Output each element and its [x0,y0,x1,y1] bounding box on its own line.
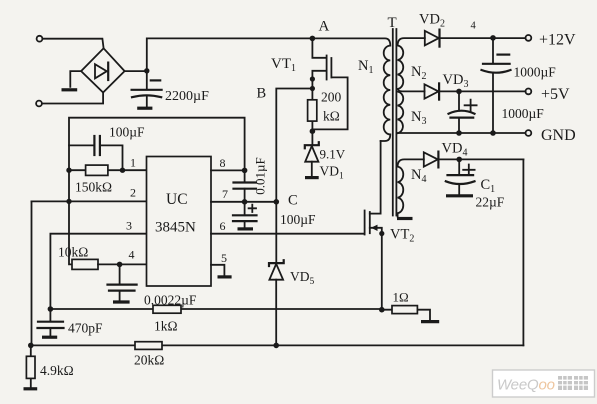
node C [274,199,280,205]
junction GND caps [456,130,462,136]
wire VD3 to +5V [439,90,525,92]
transformer T core [393,29,397,216]
junction 150k left [66,168,71,173]
svg-text:VD4: VD4 [442,141,468,159]
junction pin4 [117,262,123,268]
svg-text:N3: N3 [411,109,426,127]
winding N3 tap wire [398,89,425,91]
op-amp U1 UC3845N box [147,157,212,287]
wire current-sense row [50,308,381,310]
bridge rectifier [81,48,125,92]
terminal +5V [526,89,532,95]
wire feedback top (pin8 to left rail) [69,118,245,202]
svg-text:1000µF: 1000µF [514,65,557,80]
input terminal top [37,36,43,42]
winding N3 [398,92,404,134]
diode VD4 [424,152,438,166]
ground (VD1) [305,176,319,179]
wire AC bottom [42,93,103,104]
zener diode VD1 [311,131,313,145]
junction 5V cap [456,89,462,95]
svg-text:7: 7 [222,187,228,201]
junction pin7/cap [242,199,248,205]
resistor 20k [135,342,162,350]
junction VT2 source [379,307,385,313]
svg-text:4: 4 [471,21,477,32]
wire pin3 [50,234,146,309]
svg-text:0.01µF: 0.01µF [253,157,268,194]
svg-text:GND: GND [541,127,576,144]
capacitor 0.0022uF [119,264,121,283]
junction pin3/470pF [48,306,54,312]
ground (1 ohm) [421,320,439,323]
svg-text:2: 2 [130,186,136,200]
wire left rail down to 10k [69,201,72,264]
svg-text:WeeQoo: WeeQoo [497,377,555,394]
diode VD2 [425,31,439,46]
resistor 4.9k [30,345,32,387]
svg-text:VT1: VT1 [271,56,296,74]
junction node B [310,86,315,91]
wire GND rail [398,132,526,134]
svg-text:22µF: 22µF [476,195,505,210]
svg-text:4: 4 [129,248,135,262]
wire bottom rail [31,344,524,346]
svg-text:100µF: 100µF [109,125,145,140]
junction 200k/VD1 [310,128,316,134]
svg-text:1Ω: 1Ω [393,290,409,305]
svg-text:C1: C1 [481,177,496,195]
wire pin2 [32,200,147,202]
svg-text:VD2: VD2 [419,12,445,30]
transistor VT2 [364,211,366,235]
svg-text:N4: N4 [411,167,426,185]
winding N4 [398,159,424,216]
terminal +12V [526,35,532,41]
resistor 1k [153,305,181,313]
svg-text:5: 5 [221,251,227,265]
wire pin8 [211,169,245,171]
capacitor 0.01uF [244,170,246,181]
capacitor 2200uF [146,71,148,89]
terminal bar (N4 bottom) [397,217,413,220]
capacitor 1000uF (12V) [498,53,510,55]
bridge diode symbol [95,64,107,78]
wire AC top [43,39,104,49]
wire VT2 drain to N1 [380,141,382,214]
junction 150k right [120,168,125,173]
ground (2200uF) [137,107,152,110]
wire pin7 to node C [211,201,276,203]
input terminal bottom [36,101,42,107]
ground (100uF) [238,227,254,230]
svg-text:9.1V: 9.1V [320,147,346,162]
wire pin5 [211,265,224,275]
svg-text:3: 3 [126,219,132,233]
winding N2 [398,38,425,89]
ground (0.0022uF) [113,300,130,303]
svg-text:470pF: 470pF [68,321,103,336]
svg-text:200: 200 [321,90,342,105]
ground (4.9k) [24,387,38,390]
svg-text:VD1: VD1 [320,164,345,182]
svg-text:3845N: 3845N [155,220,196,236]
node A [310,36,316,42]
svg-text:4.9kΩ: 4.9kΩ [40,363,74,378]
svg-text:20kΩ: 20kΩ [134,353,164,368]
resistor 10k [72,259,98,269]
junction 12V cap [490,35,496,41]
wire output return (right side down) [522,159,524,345]
svg-text:VT2: VT2 [390,227,414,245]
capacitor 100uF (comp) [69,145,123,170]
ground (470pF) [42,336,57,339]
wire VD4 output [438,158,523,160]
ground (pin5) [218,275,232,278]
capacitor 1000uF (5V) [465,100,477,111]
svg-text:10kΩ: 10kΩ [58,245,88,260]
svg-text:2200µF: 2200µF [165,89,209,104]
wire pin1 [69,169,147,171]
junction pin2 rail [66,199,71,204]
svg-text:1000µF: 1000µF [502,106,545,121]
svg-text:8: 8 [220,156,226,170]
capacitor 100uF (VCC) [249,205,256,212]
junction pin8 [242,168,248,174]
wire node B (C rail up and right to VT1) [276,89,312,202]
junction VT1 source [310,76,315,81]
svg-text:+5V: +5V [541,86,570,103]
svg-text:VD5: VD5 [290,269,315,287]
wire pin4 [98,263,147,265]
svg-text:UC: UC [166,191,188,208]
svg-text:N1: N1 [358,58,373,76]
wire bridge left to ground [70,71,81,87]
terminal GND [526,130,532,136]
svg-text:B: B [257,86,267,102]
svg-text:VD3: VD3 [443,72,469,90]
svg-text:6: 6 [220,219,226,233]
svg-text:N2: N2 [411,64,426,82]
winding N1 [312,38,390,141]
watermark box [493,370,595,397]
svg-text:C: C [288,193,298,209]
resistor 200k [311,89,313,132]
svg-text:1: 1 [130,156,136,170]
capacitor 470pF [49,309,51,321]
wire VT1 gate loop [314,77,348,129]
wire pin6 to VT2 gate [211,233,365,235]
wire VD2 to +12V [440,37,526,39]
junction bottom left [28,343,34,349]
wire DC+ rail [147,38,313,70]
zener diode VD5 [275,202,277,263]
svg-text:150kΩ: 150kΩ [75,180,112,195]
svg-text:kΩ: kΩ [323,109,340,124]
junction VD5 bottom [273,343,279,349]
capacitor C1 22uF [463,165,474,176]
resistor 150k [86,165,108,175]
wire pin2 left vertical [31,201,33,345]
svg-text:A: A [319,19,330,35]
resistor 1 ohm [382,310,430,320]
terminal bar (C1) [446,194,473,197]
svg-text:T: T [388,15,397,31]
junction C1 [456,157,462,163]
ground (bridge) [62,88,78,91]
svg-text:1kΩ: 1kΩ [154,319,178,334]
wire bridge output [125,70,147,72]
svg-text:+12V: +12V [539,32,576,49]
junction bridge output [144,68,149,73]
svg-text:100µF: 100µF [280,212,316,227]
diode VD3 [425,84,439,98]
